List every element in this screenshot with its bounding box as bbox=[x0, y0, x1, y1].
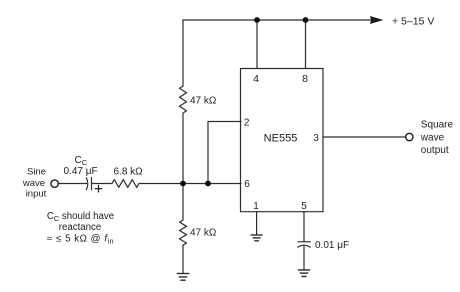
wire R2 bottom to ground bbox=[182, 245, 184, 274]
node junction dot R-divider/input bbox=[180, 181, 186, 187]
capacitor Cc straight plate bbox=[91, 178, 93, 190]
resistor R 47k top bbox=[180, 86, 187, 113]
wire pin1 to ground bbox=[256, 212, 258, 236]
svg-text:47 kΩ: 47 kΩ bbox=[190, 228, 217, 239]
wire left vertical from rail to R1 bbox=[182, 20, 184, 86]
wire pin4 to rail bbox=[256, 20, 258, 68]
svg-text:Sine: Sine bbox=[27, 167, 46, 178]
wire pin8 to rail bbox=[305, 20, 307, 68]
svg-text:0.01 μF: 0.01 μF bbox=[315, 240, 349, 251]
svg-text:0.47 μF: 0.47 μF bbox=[64, 166, 98, 177]
wire R3 to pin6 on U1 bbox=[139, 183, 241, 185]
svg-text:NE555: NE555 bbox=[264, 133, 298, 145]
resistor R3 6.8k bbox=[112, 180, 139, 188]
svg-text:wave: wave bbox=[420, 132, 445, 143]
svg-text:+ 5–15 V: + 5–15 V bbox=[392, 16, 434, 28]
capacitor C2 0.01uF curved plate bbox=[298, 245, 310, 247]
ground below pin1 bbox=[251, 235, 263, 241]
capacitor C2 0.01uF top plate bbox=[298, 241, 310, 243]
capacitor Cc curved plate bbox=[86, 178, 88, 190]
capacitor Cc polarity plus bbox=[95, 185, 103, 193]
wire input node down to R2 bbox=[182, 184, 184, 221]
node junction dot pin2/pin6 bbox=[205, 181, 211, 187]
svg-text:input: input bbox=[26, 189, 47, 200]
node junction dot pin8/rail bbox=[303, 17, 309, 23]
wire pin3 to output terminal bbox=[323, 136, 406, 138]
svg-text:8: 8 bbox=[302, 73, 308, 85]
ground below R2 bbox=[177, 274, 190, 281]
svg-text:3: 3 bbox=[313, 133, 319, 144]
wire top supply rail bbox=[183, 19, 372, 21]
node junction dot pin4/rail bbox=[254, 17, 260, 23]
svg-text:47 kΩ: 47 kΩ bbox=[190, 96, 217, 107]
svg-text:2: 2 bbox=[244, 118, 250, 129]
svg-text:output: output bbox=[421, 145, 449, 156]
svg-text:reactance: reactance bbox=[59, 222, 102, 233]
svg-text:6.8 kΩ: 6.8 kΩ bbox=[114, 167, 144, 178]
resistor R 47k bottom bbox=[180, 220, 187, 245]
svg-text:Square: Square bbox=[421, 119, 454, 130]
svg-text:≈ ≤ 5 kΩ @ fin: ≈ ≤ 5 kΩ @ fin bbox=[47, 233, 114, 245]
arrow supply bbox=[370, 16, 384, 24]
op-amp/timer U1 NE555 box bbox=[241, 69, 324, 212]
wire R1 bottom to input node bbox=[182, 114, 184, 184]
svg-text:wave: wave bbox=[22, 178, 45, 189]
wire pin5 down to C2 bbox=[303, 212, 305, 242]
svg-text:5: 5 bbox=[301, 201, 307, 212]
svg-text:4: 4 bbox=[253, 73, 259, 85]
wire input line circle to capacitor bbox=[59, 183, 87, 185]
wire capacitor to R3 bbox=[92, 183, 113, 185]
ground below C2 bbox=[298, 270, 311, 276]
svg-text:6: 6 bbox=[244, 179, 250, 190]
wire C2 to ground bbox=[303, 246, 305, 271]
svg-text:1: 1 bbox=[253, 201, 259, 212]
input terminal circle bbox=[51, 180, 58, 187]
output terminal circle bbox=[406, 133, 413, 140]
wire pin2 horizontal and vertical to node bbox=[208, 122, 241, 184]
